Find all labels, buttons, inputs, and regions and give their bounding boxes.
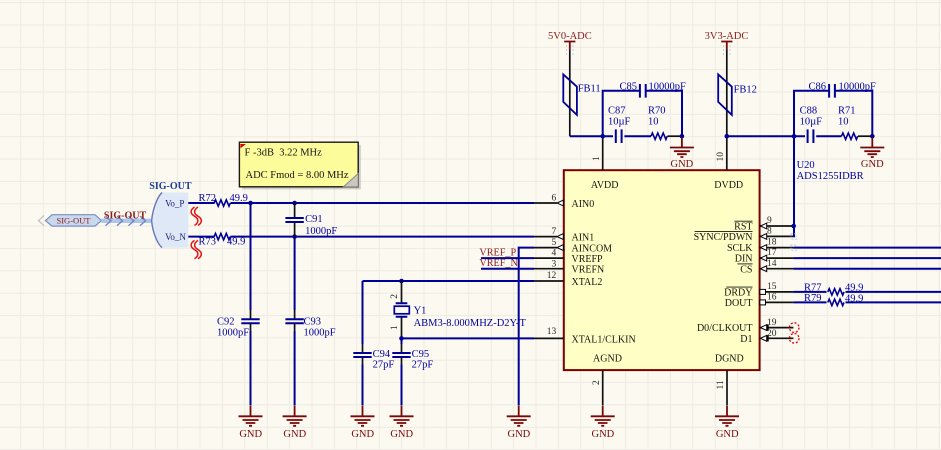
svg-text:27pF: 27pF [373, 359, 395, 370]
resistor R72 [198, 193, 247, 206]
wire C92 branch [250, 203, 252, 310]
svg-text:13: 13 [547, 327, 557, 337]
node RST/SYNC junction [791, 224, 796, 229]
wire SCLK [793, 247, 941, 249]
svg-text:DIN: DIN [735, 254, 753, 265]
svg-text:2: 2 [592, 380, 602, 385]
pin 4 VREFP [534, 249, 603, 265]
wire XTAL1 row [402, 337, 535, 339]
svg-text:5V0-ADC: 5V0-ADC [548, 31, 592, 42]
pin 7 AIN1 [534, 227, 594, 243]
svg-text:C85: C85 [619, 81, 637, 92]
pin 3 VREFN [534, 259, 604, 275]
svg-text:GND: GND [508, 429, 531, 440]
svg-text:F -3dB 3.22 MHz: F -3dB 3.22 MHz [245, 148, 323, 159]
wire C93 branch [294, 237, 296, 310]
svg-text:C86: C86 [808, 81, 826, 92]
wire R72 to AIN0 [231, 202, 535, 204]
ground GND (C94) [351, 406, 375, 440]
svg-text:SIG-OUT: SIG-OUT [104, 211, 147, 222]
svg-text:R79: R79 [804, 293, 822, 304]
ground GND (C92) [239, 406, 263, 440]
wire-end marker pin18 [791, 245, 796, 250]
svg-text:49.9: 49.9 [227, 237, 245, 248]
ground GND (C95) [390, 406, 414, 440]
svg-text:9: 9 [767, 216, 772, 226]
capacitor C95 [392, 344, 433, 370]
ground GND (DGND) [715, 406, 739, 440]
pin 13 XTAL1/CLKIN [534, 327, 636, 346]
svg-text:C92: C92 [217, 316, 235, 327]
svg-text:4: 4 [552, 249, 557, 259]
svg-text:FB12: FB12 [734, 84, 757, 95]
pin 15 DRDY [724, 282, 793, 299]
svg-text:1: 1 [390, 325, 400, 330]
node AVDD junction [600, 134, 605, 139]
ferrite bead FB12 [718, 74, 757, 115]
pin 19 D0/CLKOUT [697, 318, 793, 334]
resistor R73 [198, 233, 245, 247]
note box [239, 142, 360, 189]
wire C94 branch [362, 281, 364, 344]
svg-text:AVDD: AVDD [591, 180, 619, 191]
wire DIN [793, 257, 941, 259]
pin 14 CS [738, 259, 794, 276]
wire DRDY to R77 [793, 291, 826, 293]
svg-text:VREFP: VREFP [572, 254, 604, 265]
harness cable SIG-OUT [102, 211, 152, 226]
wire 5V0 vertical [569, 50, 571, 136]
svg-text:C87: C87 [608, 106, 626, 117]
capacitor C85 [619, 81, 686, 97]
pin 9 RST [734, 216, 793, 233]
svg-text:7: 7 [552, 227, 557, 237]
svg-text:C91: C91 [305, 214, 323, 225]
wire R79 out [846, 301, 941, 303]
svg-text:SIG-OUT: SIG-OUT [57, 215, 92, 225]
svg-text:R71: R71 [838, 106, 856, 117]
svg-text:1000pF: 1000pF [305, 226, 337, 237]
svg-text:C93: C93 [304, 316, 322, 327]
resistor R70 [648, 106, 667, 140]
capacitor C91 [285, 203, 337, 237]
port SIG-OUT [39, 215, 102, 226]
svg-text:D1: D1 [740, 334, 752, 345]
svg-text:3V3-ADC: 3V3-ADC [705, 31, 749, 42]
wire R77 out [846, 291, 941, 293]
pin 17 DIN [735, 248, 794, 265]
ground GND (AVDD filter) [670, 137, 694, 170]
pin 20 D1 [740, 329, 793, 345]
pin 6 AIN0 [534, 194, 594, 210]
wire 3V3 to RST/SYNC pull-up [792, 136, 795, 236]
capacitor C93 [285, 310, 335, 339]
svg-text:C88: C88 [800, 106, 818, 117]
capacitor C86 [808, 81, 876, 97]
no-ERC marker pin 19 [789, 323, 799, 333]
svg-text:19: 19 [767, 318, 777, 328]
wire XTAL2 row [363, 280, 535, 282]
svg-text:16: 16 [767, 293, 777, 303]
svg-text:CS: CS [740, 264, 752, 275]
op-amp U1 : ADC U20 body [564, 160, 864, 370]
svg-text:VREF_N: VREF_N [479, 258, 518, 269]
svg-text:DVDD: DVDD [714, 180, 743, 191]
svg-text:11: 11 [716, 380, 726, 389]
svg-text:10µF: 10µF [608, 117, 631, 128]
node DVDD junction [725, 134, 730, 139]
ferrite bead FB11 [563, 74, 600, 115]
wire C88 to R71 [816, 135, 841, 137]
svg-text:R77: R77 [804, 283, 822, 294]
svg-text:AINCOM: AINCOM [572, 244, 613, 255]
harness entry block SIG-OUT [149, 181, 192, 247]
wire Vo_P rail [188, 202, 214, 204]
svg-text:AIN1: AIN1 [572, 233, 595, 244]
capacitor C88 [800, 106, 823, 143]
wire C95 to GND [401, 365, 403, 406]
pin 1 AVDD [591, 138, 619, 191]
node Y1 pin2 junction [399, 279, 404, 284]
capacitor C87 [608, 106, 631, 143]
svg-text:27pF: 27pF [412, 359, 434, 370]
svg-text:GND: GND [716, 429, 739, 440]
svg-text:AGND: AGND [593, 353, 622, 364]
wire-end marker pin8 [791, 234, 796, 239]
wire C93 to GND [294, 331, 296, 406]
svg-text:5: 5 [552, 238, 557, 248]
svg-text:14: 14 [767, 259, 777, 269]
resistor R71 [838, 106, 858, 140]
wire Vo_N rail [188, 236, 214, 238]
wire C94 to GND [362, 365, 364, 406]
svg-text:GND: GND [592, 429, 615, 440]
svg-text:VREF_P: VREF_P [479, 247, 516, 258]
wire AVDD rail [570, 135, 613, 137]
svg-text:Vo_N: Vo_N [165, 232, 186, 242]
capacitor C92 [217, 310, 260, 339]
wire VREF_P [481, 257, 534, 259]
pin 18 SCLK [727, 238, 793, 255]
svg-text:VREFN: VREFN [572, 265, 605, 276]
svg-text:GND: GND [283, 429, 306, 440]
node R71/C86/GND junction [870, 134, 875, 139]
wire C92 to GND [250, 331, 252, 406]
svg-text:2: 2 [390, 294, 400, 299]
wire DVDD rail [727, 135, 805, 137]
svg-text:R72: R72 [198, 193, 216, 204]
svg-text:10µF: 10µF [800, 117, 823, 128]
node 3V3 branch junction [792, 134, 797, 139]
svg-text:GND: GND [390, 429, 413, 440]
svg-text:1000pF: 1000pF [217, 328, 249, 339]
svg-text:15: 15 [767, 282, 777, 292]
svg-text:1000pF: 1000pF [304, 328, 336, 339]
svg-text:ADC Fmod = 8.00 MHz: ADC Fmod = 8.00 MHz [246, 170, 349, 181]
wire C85 loop [603, 91, 682, 136]
pin 12 XTAL2 [534, 271, 602, 288]
node C91 top tap [292, 201, 297, 206]
svg-text:DGND: DGND [715, 353, 744, 364]
wire R70 to GND node [667, 135, 682, 137]
wire DOUT to R79 [793, 301, 826, 303]
pin 11 DGND [715, 353, 744, 405]
svg-text:10000pF: 10000pF [839, 81, 877, 92]
pin 8 SYNC/PDWN [694, 227, 794, 244]
svg-text:ADS1255IDBR: ADS1255IDBR [797, 171, 864, 182]
svg-text:ABM3-8.000MHZ-D2Y-T: ABM3-8.000MHZ-D2Y-T [414, 318, 527, 329]
svg-text:SIG-OUT: SIG-OUT [149, 181, 192, 192]
wire AINCOM to GND [519, 248, 534, 406]
pin 10 DVDD [714, 138, 743, 191]
resistor R77 [804, 283, 863, 295]
power port 3V3-ADC [705, 31, 749, 55]
ground GND (C93) [283, 406, 307, 440]
svg-text:1: 1 [592, 156, 602, 161]
wire VREF_N [481, 268, 534, 270]
wire R71 to GND node [858, 135, 872, 137]
svg-text:10: 10 [838, 117, 849, 128]
svg-text:12: 12 [547, 271, 557, 281]
svg-text:DOUT: DOUT [725, 298, 753, 309]
node C92 tap [248, 201, 253, 206]
svg-text:10: 10 [716, 152, 726, 162]
svg-text:U20: U20 [797, 160, 815, 171]
wire C86 loop [794, 91, 872, 136]
svg-text:XTAL1/CLKIN: XTAL1/CLKIN [572, 334, 636, 345]
svg-text:R73: R73 [198, 237, 216, 248]
wire R73 to AIN1 [231, 236, 535, 238]
ground GND (AINCOM) [507, 406, 531, 440]
capacitor C94 [353, 344, 394, 370]
pin 5 AINCOM [534, 238, 612, 254]
power port 5V0-ADC [548, 31, 592, 55]
crystal Y1 [390, 281, 526, 338]
svg-text:SCLK: SCLK [727, 243, 753, 254]
ground GND (AGND) [591, 406, 615, 440]
svg-text:RST: RST [734, 222, 752, 233]
svg-text:Y1: Y1 [414, 305, 427, 316]
svg-text:R70: R70 [648, 106, 666, 117]
svg-text:DRDY: DRDY [724, 288, 752, 299]
svg-text:10000pF: 10000pF [649, 81, 687, 92]
no-ERC marker pin 20 [789, 334, 799, 344]
wire C87 to R70 [624, 135, 651, 137]
svg-text:D0/CLKOUT: D0/CLKOUT [697, 323, 753, 334]
pin 16 DOUT [725, 293, 794, 310]
svg-text:17: 17 [767, 248, 777, 258]
wire C95 branch [401, 338, 403, 344]
node R70/C85/GND junction [680, 134, 685, 139]
differential pair marker Vo_N [191, 240, 201, 258]
wire 3V3 vertical to DVDD pin [726, 50, 728, 136]
svg-text:GND: GND [861, 159, 884, 170]
svg-text:GND: GND [671, 159, 694, 170]
wire CS [793, 268, 941, 270]
node C91 bottom tap [292, 234, 297, 239]
svg-text:3: 3 [552, 259, 557, 269]
svg-text:FB11: FB11 [578, 83, 601, 94]
svg-text:10: 10 [648, 117, 659, 128]
resistor R79 [804, 293, 863, 305]
svg-text:18: 18 [767, 238, 777, 248]
svg-text:20: 20 [767, 329, 777, 339]
differential pair marker Vo_P [191, 207, 201, 225]
svg-text:GND: GND [351, 429, 374, 440]
svg-text:SYNC/PDWN: SYNC/PDWN [694, 232, 753, 243]
svg-text:GND: GND [239, 429, 262, 440]
svg-text:6: 6 [552, 194, 557, 204]
svg-text:8: 8 [767, 227, 772, 237]
pin 2 AGND [592, 353, 622, 405]
svg-text:XTAL2: XTAL2 [572, 277, 603, 288]
ground GND (DVDD filter) [860, 137, 884, 170]
svg-text:Vo_P: Vo_P [165, 199, 184, 209]
svg-text:AIN0: AIN0 [572, 199, 595, 210]
node Y1 pin1 junction [399, 336, 404, 341]
